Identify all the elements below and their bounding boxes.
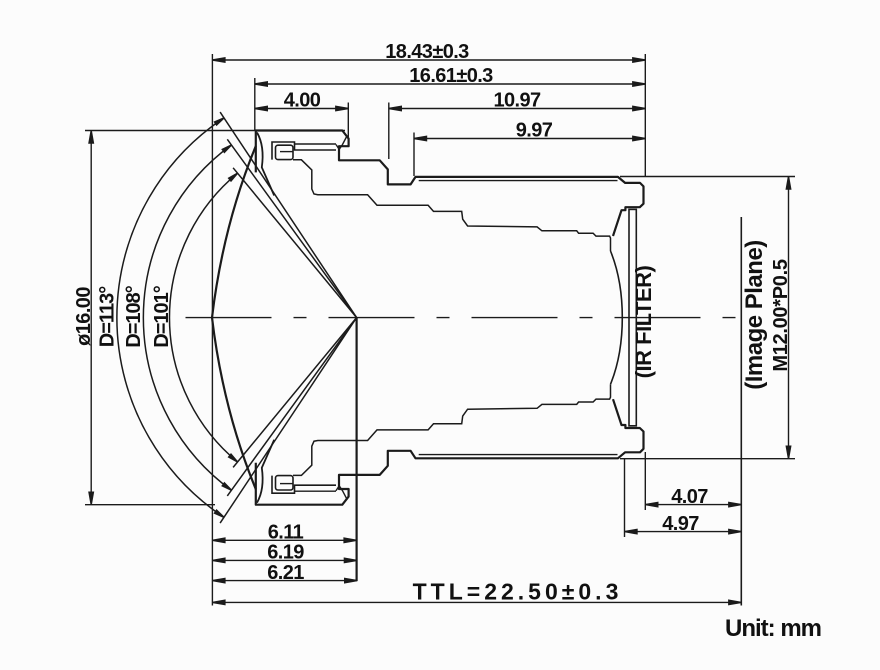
svg-text:TTL=22.50±0.3: TTL=22.50±0.3 bbox=[413, 579, 623, 605]
dimension 4.97 bbox=[625, 529, 742, 533]
dimension TTL=22.50±0.3 bbox=[212, 600, 741, 604]
dimension 6.11 bbox=[212, 538, 356, 542]
FOV ray line D=113 deg, lower bbox=[220, 318, 357, 523]
M12 extension line, bottom bbox=[620, 458, 795, 460]
svg-text:M12.00*P0.5: M12.00*P0.5 bbox=[770, 259, 792, 372]
dome seat cone edge, lower bbox=[257, 440, 274, 503]
svg-text:4.00: 4.00 bbox=[284, 90, 321, 112]
svg-text:6.21: 6.21 bbox=[267, 562, 304, 584]
svg-text:Unit: mm: Unit: mm bbox=[725, 615, 821, 642]
thread start extension line bbox=[413, 133, 415, 177]
svg-text:(Image Plane): (Image Plane) bbox=[741, 240, 768, 390]
svg-text:9.97: 9.97 bbox=[516, 120, 553, 142]
thread rear extension line, bottom bbox=[624, 459, 626, 537]
svg-text:10.97: 10.97 bbox=[493, 90, 541, 112]
FOV angle dimension arc D=108 deg bbox=[143, 145, 231, 490]
inner bore steps, lower (mirror) bbox=[293, 384, 611, 475]
cap front face extension line bbox=[254, 78, 256, 130]
barrel step extension line bbox=[388, 103, 390, 160]
dimension 18.43±0.3 bbox=[212, 58, 645, 62]
dimension 6.19 bbox=[212, 558, 357, 562]
svg-text:6.11: 6.11 bbox=[268, 522, 304, 544]
dimension 4.00 bbox=[255, 106, 348, 110]
svg-text:D=108°: D=108° bbox=[123, 285, 145, 347]
rear lens element surface bbox=[611, 251, 623, 384]
front retainer / seal groove detail, lower (mirror) bbox=[272, 476, 336, 494]
svg-text:ø16.00: ø16.00 bbox=[73, 287, 95, 346]
FOV ray line D=108 deg, upper bbox=[227, 139, 356, 317]
svg-text:D=113°: D=113° bbox=[97, 286, 119, 347]
FOV ray line D=108 deg, lower bbox=[227, 318, 356, 496]
dimension 9.97 bbox=[414, 136, 645, 140]
thread minor-diameter line, upper bbox=[419, 180, 618, 182]
svg-text:4.97: 4.97 bbox=[662, 513, 699, 535]
barrel rear extension line, top bbox=[644, 54, 646, 176]
IR filter glass bbox=[629, 209, 636, 425]
FOV ray line D=113 deg, upper bbox=[220, 112, 357, 318]
FOV angle dimension arc D=113 deg bbox=[117, 118, 224, 517]
svg-text:6.19: 6.19 bbox=[267, 542, 304, 564]
svg-text:(IR FILTER): (IR FILTER) bbox=[631, 266, 656, 379]
lens barrel outline, upper half bbox=[256, 131, 644, 237]
dome seat cone edge, upper bbox=[257, 133, 274, 196]
dimension 4.07 bbox=[645, 502, 741, 506]
dia16 extension line, bottom bbox=[85, 504, 215, 506]
dimension M12.00*P0.5 vertical bbox=[786, 177, 790, 459]
svg-text:18.43±0.3: 18.43±0.3 bbox=[385, 41, 469, 63]
wire: horizontal centerline (optical axis) bbox=[186, 317, 750, 319]
dimension 6.21 bbox=[212, 578, 357, 582]
front dome lens outer surface bbox=[212, 146, 256, 489]
front retainer / seal groove detail, upper bbox=[272, 142, 336, 160]
dimension 16.61±0.3 bbox=[255, 82, 646, 86]
dimension dia 16.00 vertical bbox=[89, 131, 93, 505]
dimension 10.97 bbox=[389, 106, 646, 110]
svg-text:16.61±0.3: 16.61±0.3 bbox=[409, 65, 493, 87]
image plane line / TTL extension bbox=[740, 217, 742, 606]
thread minor-diameter line, lower bbox=[419, 454, 618, 456]
inner bore steps, upper bbox=[293, 160, 611, 251]
FOV ray line D=101 deg, lower bbox=[233, 318, 357, 468]
front vertex extension line bbox=[211, 54, 213, 606]
rear principal plane vertical line bbox=[356, 318, 358, 581]
FOV angle dimension arc D=101 deg bbox=[169, 173, 237, 462]
cap rear face extension line bbox=[347, 103, 349, 138]
barrel rear extension line, bottom bbox=[644, 452, 646, 510]
lens barrel outline, lower half (mirror) bbox=[256, 399, 644, 505]
dia16 extension line, top bbox=[85, 130, 345, 132]
FOV ray line D=101 deg, upper bbox=[233, 168, 357, 318]
svg-text:D=101°: D=101° bbox=[151, 285, 173, 347]
M12 extension line, top bbox=[620, 176, 795, 178]
svg-text:4.07: 4.07 bbox=[671, 486, 708, 508]
